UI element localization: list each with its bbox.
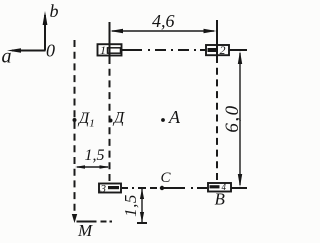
svg-text:a: a [2,46,12,68]
svg-text:6,0: 6,0 [222,104,243,132]
bottom center line right stub [231,187,247,189]
rect 2 inner bar [208,48,219,52]
dashed line through D1 and M (left vertical) [74,40,76,220]
svg-text:Д: Д [112,110,125,127]
svg-text:b: b [50,1,59,21]
dim 1,5v bottom tick [137,222,147,224]
rect B inner bar [210,185,220,188]
support rect 1 [98,44,122,55]
dim 6,0 bottom arrowhead [238,174,242,187]
dim 4,6 right arrowhead [204,29,217,33]
dim 1,5 right arrowhead [100,165,110,169]
axis a arrowhead [7,48,21,53]
rect 3 inner bar [108,186,119,189]
svg-text:A: A [168,107,181,127]
dimension 1,5 line (horizontal, between dashed lines) [77,166,108,168]
point C dot [160,186,164,190]
point A [161,118,165,122]
bottom center line between rect3 and rectB [122,187,207,189]
svg-text:C: C [161,170,172,186]
dim 4,6 left arrowhead [110,29,123,33]
point D [109,119,113,123]
dimension 4,6 line [112,30,214,32]
dim 1,5 left arrowhead [75,165,85,169]
axis b arrowhead [43,11,48,25]
svg-text:3: 3 [100,183,107,195]
support rect 2 [206,45,229,55]
svg-text:2: 2 [220,43,226,57]
dimension 1,5 vertical line (bottom middle) [141,189,143,222]
dimension 6,0 line (vertical right) [239,53,241,185]
extension/dashed line through rect 1, D, rect 3 [109,22,111,57]
axis b (vertical) [44,15,46,51]
svg-text:1,5: 1,5 [121,194,140,217]
svg-text:4,6: 4,6 [152,11,175,31]
M horizontal dashed line [77,221,113,223]
svg-text:1: 1 [100,43,106,57]
top center line right stub [230,49,248,51]
svg-text:В: В [215,190,226,209]
support rect B [208,183,231,192]
extension/dashed line through rect 2 and rect B [216,20,218,56]
axis a (horizontal) [12,50,46,52]
dim 1,5v bottom arrowhead [140,212,144,223]
dim 1,5v top arrowhead [140,189,144,200]
svg-text:1,5: 1,5 [85,147,105,164]
svg-text:М: М [77,221,93,240]
rect 1 inner box [108,48,121,53]
point M arrow dot [72,214,77,223]
dim 6,0 top arrowhead [238,51,242,64]
top center line between rect1 and rect2 [122,49,206,51]
point D1 [73,118,77,122]
support rect 3 [99,184,121,193]
svg-text:0: 0 [46,41,55,61]
